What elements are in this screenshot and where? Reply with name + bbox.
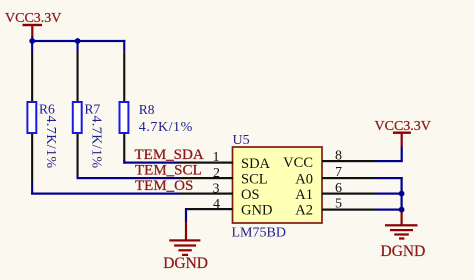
svg-text:4.7K/1%: 4.7K/1% xyxy=(89,116,104,169)
pin 2 SCL xyxy=(180,166,268,188)
wire: rail drop to R6 xyxy=(31,41,33,52)
resistor R6 xyxy=(27,52,58,184)
svg-text:GND: GND xyxy=(241,203,272,219)
wire: pin5 to vertical xyxy=(375,209,403,211)
pin 6 A1 xyxy=(295,181,375,203)
svg-text:6: 6 xyxy=(335,181,342,196)
svg-text:R8: R8 xyxy=(139,102,155,117)
svg-text:DGND: DGND xyxy=(381,243,426,260)
wire: rail corner drop to R8 xyxy=(123,40,125,52)
svg-text:VCC3.3V: VCC3.3V xyxy=(5,11,61,26)
wire: pin8 to VCC (corner up) xyxy=(375,147,403,163)
pin 5 A2 xyxy=(295,197,375,219)
svg-text:OS: OS xyxy=(241,187,260,203)
power VCC3.3V (top-left) xyxy=(5,11,61,37)
pin 4 GND xyxy=(185,197,272,219)
node: junction pin5 xyxy=(399,207,405,213)
svg-text:A2: A2 xyxy=(295,203,313,219)
svg-text:TEM_OS: TEM_OS xyxy=(135,178,193,194)
svg-text:TEM_SDA: TEM_SDA xyxy=(135,147,204,163)
pin 1 SDA xyxy=(180,150,271,172)
op-amp U5 body (LM75BD) xyxy=(232,133,323,241)
pin 3 OS xyxy=(180,181,260,203)
wire: rail drop to R7 xyxy=(77,41,79,52)
wire: top rail xyxy=(31,40,125,42)
ground DGND (left) xyxy=(163,222,208,272)
svg-text:4.7K/1%: 4.7K/1% xyxy=(43,116,58,169)
svg-text:A0: A0 xyxy=(295,172,313,188)
wire: pin6 to vertical xyxy=(375,193,403,195)
svg-text:VCC: VCC xyxy=(283,155,313,171)
svg-text:4: 4 xyxy=(213,197,220,212)
ground DGND (right) xyxy=(381,212,426,260)
svg-text:2: 2 xyxy=(213,166,220,181)
svg-text:1: 1 xyxy=(213,150,220,165)
node: junction rail/R6 xyxy=(29,38,35,44)
wire: pin7 corner down xyxy=(375,177,403,213)
svg-text:3: 3 xyxy=(213,181,220,196)
svg-text:U5: U5 xyxy=(233,133,250,148)
power VCC3.3V (right) xyxy=(375,119,431,147)
svg-text:R6: R6 xyxy=(39,102,55,117)
svg-text:7: 7 xyxy=(335,165,342,180)
wire: R8 to pin1 (TEM_SDA row) xyxy=(123,160,180,164)
svg-text:LM75BD: LM75BD xyxy=(232,226,286,241)
resistor R7 xyxy=(73,52,104,176)
wire: R7 to pin2 (TEM_SCL row) xyxy=(77,175,181,179)
pin 8 VCC xyxy=(283,148,375,171)
svg-text:DGND: DGND xyxy=(163,255,208,272)
wire: VCC stub to rail xyxy=(31,37,33,42)
svg-text:R7: R7 xyxy=(85,102,101,117)
resistor R8 xyxy=(120,52,193,161)
svg-text:8: 8 xyxy=(335,148,342,163)
svg-text:SCL: SCL xyxy=(241,172,268,188)
wire: pin4 corner down to ground xyxy=(185,208,187,222)
node: junction pin6 xyxy=(399,191,405,197)
svg-text:A1: A1 xyxy=(295,187,313,203)
svg-text:5: 5 xyxy=(335,197,342,212)
svg-text:TEM_SCL: TEM_SCL xyxy=(135,163,202,179)
node: junction rail/R7 xyxy=(75,38,81,44)
svg-text:4.7K/1%: 4.7K/1% xyxy=(139,120,193,135)
wire: R6 to pin3 (TEM_OS row) xyxy=(31,184,180,195)
svg-text:SDA: SDA xyxy=(241,156,271,172)
pin 7 A0 xyxy=(295,165,375,188)
